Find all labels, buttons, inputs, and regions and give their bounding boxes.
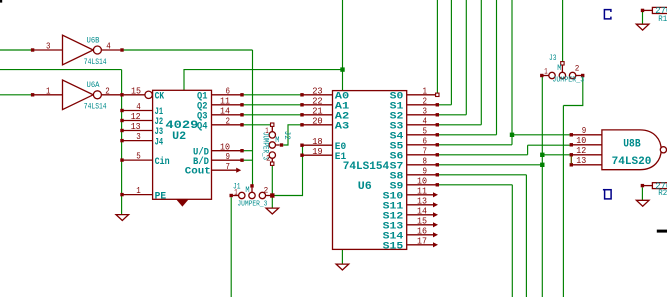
wire U6B output net horizontal [123,49,252,51]
svg-text:3: 3 [46,42,51,52]
wire resistor R? to ground (bottom right) [641,187,643,200]
pin 13 S11 of U6 [383,196,438,212]
svg-text:JUMPER_3: JUMPER_3 [237,200,267,208]
svg-text:20: 20 [312,116,323,126]
svg-text:S15: S15 [383,241,404,253]
svg-text:M: M [557,64,561,73]
pin 13 of U8B [570,156,602,167]
pin 9 B/D of U2 [193,152,244,168]
pin 20 A3 of U6 [300,116,349,132]
svg-text:10: 10 [576,136,586,146]
svg-text:JUMPER_3: JUMPER_3 [552,77,584,85]
resistor R2 270 (bottom right) [641,181,667,197]
svg-text:6: 6 [423,136,428,146]
svg-text:3: 3 [423,106,428,116]
jumper J2 JUMPER_3 [260,123,291,165]
wire A3 jog to jumper J2 pin M [283,125,302,145]
svg-text:U6: U6 [358,181,372,193]
nand gate U8B 74LS20 body [602,130,667,170]
wire S7 row to junction on vertical x=542 [439,164,541,166]
wire B/D pin to vertical x=252 [243,159,253,161]
wire junction node to ground stub [271,196,273,209]
svg-text:13: 13 [131,122,141,132]
svg-text:U6A: U6A [87,81,100,90]
pin 1 PE of U2 [120,186,166,202]
svg-text:2: 2 [226,116,231,126]
svg-text:4: 4 [423,116,428,126]
svg-text:22: 22 [312,96,323,106]
svg-text:19: 19 [312,147,323,157]
wire S1 jog and riser [439,0,452,105]
wire Q4 to jumper J2 pin 1 [243,124,271,126]
svg-text:1: 1 [234,188,238,197]
wire S3 jog and riser [439,0,482,125]
svg-text:7: 7 [226,162,231,172]
svg-text:2: 2 [423,96,428,106]
pin 1 S0 of U6 [390,86,439,102]
svg-text:4: 4 [106,42,111,52]
decoder U6 74LS154 body [333,91,407,250]
svg-text:23: 23 [312,86,323,96]
svg-text:8: 8 [423,156,428,166]
svg-text:11: 11 [417,186,427,196]
pin 7 S6 of U6 [390,146,439,162]
pin 11 Q2 of U2 [197,96,244,112]
node D [603,190,611,199]
wire S2 jog and riser [439,0,467,115]
svg-text:14: 14 [417,206,427,216]
pin 4 S3 of U6 [390,116,439,132]
wire S8 row down at x=526 to bottom edge [439,175,527,297]
svg-text:15: 15 [417,216,427,226]
pin 15 CK of U2 with bubble [124,87,165,103]
pin 14 S12 of U6 [383,206,438,222]
junction (542,155) [540,153,544,157]
svg-text:R1: R1 [658,15,667,24]
pin 23 A0 of U6 [300,86,349,102]
pin 22 A1 of U6 [300,96,349,112]
resistor R1 270 (top right) [641,6,667,24]
svg-text:9: 9 [226,152,231,162]
ground below resistor R1 [636,24,649,30]
svg-text:Cout: Cout [185,166,211,178]
svg-text:J2: J2 [282,131,291,140]
wire E0/E1 tie down to junction node [274,145,303,195]
svg-text:Cin: Cin [155,156,170,168]
svg-text:2: 2 [264,187,269,196]
pin 3 J4 of U2 [120,132,163,148]
svg-text:9: 9 [423,166,428,176]
wire tie between pins 12 and 13 of U8B [570,156,572,164]
svg-text:14: 14 [220,106,230,116]
svg-text:U2: U2 [172,131,186,143]
svg-text:CK: CK [155,90,165,102]
wire Q3 to A2 [243,114,302,116]
pin 7 Cout of U2 [185,162,241,178]
svg-text:5: 5 [136,152,141,162]
svg-text:74LS20: 74LS20 [612,156,652,168]
svg-text:2: 2 [575,64,580,73]
pin 10 U/D of U2 [193,142,244,158]
svg-text:13: 13 [576,156,586,166]
svg-text:2: 2 [105,86,110,96]
svg-text:R2: R2 [658,189,667,198]
svg-text:10: 10 [417,176,427,186]
pin 21 A2 of U6 [300,106,349,122]
svg-text:21: 21 [312,106,323,116]
svg-text:1: 1 [136,186,141,196]
pin 6 Q1 of U2 [197,86,244,102]
svg-text:1: 1 [265,127,269,136]
svg-text:13: 13 [417,196,427,206]
svg-text:J3: J3 [549,54,557,63]
wire U6B input from left edge [0,49,32,51]
svg-text:74LS14: 74LS14 [84,103,107,112]
svg-text:Q4: Q4 [197,121,208,133]
ground below resistor R2 [636,200,649,206]
svg-text:1: 1 [423,86,428,96]
wire Q2 to A1 [243,104,302,106]
svg-text:M: M [275,136,279,145]
svg-text:J4: J4 [155,136,164,148]
counter U2 4029 body [153,90,212,206]
pin 11 S10 of U6 [383,186,438,202]
wire 4029 top pin to vertical x=342 [184,70,343,91]
inverter U6B 74LS14 [31,35,124,67]
pin 5 Cin of U2 [120,152,169,168]
svg-text:5: 5 [423,126,428,136]
wire feedback net from left edge [0,69,122,71]
wire S5 row joining riser x=512 [439,0,512,145]
pin 6 S5 of U6 [390,136,439,152]
wire jumper J3 pin 1 vertical down to bottom edge [541,77,543,297]
ground below U6 [336,264,349,270]
svg-text:12: 12 [576,146,586,156]
svg-text:9: 9 [582,126,587,136]
svg-text:7: 7 [423,146,428,156]
pin 9 S8 of U6 [390,166,439,182]
svg-text:M: M [245,186,249,195]
svg-text:PE: PE [155,190,167,202]
svg-text:15: 15 [131,87,141,97]
wire S0 riser to top edge [436,0,438,93]
wire vertical x=342 from top edge to U6 top [342,0,344,90]
svg-text:12: 12 [131,112,141,122]
wire resistor R? to ground (top right) [642,12,644,24]
wire vertical x=122 (inverter feedback / 4029 input bus) down to ground [121,70,123,215]
node C [604,10,611,19]
pin 2 S1 of U6 [390,96,439,112]
pin 15 S13 of U6 [383,216,438,232]
pin 2 Q4 of U2 [197,116,244,132]
svg-text:E1: E1 [335,151,346,163]
svg-text:16: 16 [417,226,427,236]
pin 10 of U8B [570,136,602,147]
junction (542,165) [540,163,544,167]
wire Q1 to A0 [243,94,302,96]
ground below U2 input bus [116,215,129,221]
wire J1 pin1 down to bottom edge [230,197,232,297]
svg-text:74LS14: 74LS14 [84,58,107,67]
svg-text:U6B: U6B [87,36,100,45]
junction (512,135) [510,133,514,137]
jumper J3 JUMPER_3 [540,54,585,85]
junction node (272,195.5) [270,193,274,197]
pin 12 of U8B [570,146,602,157]
pin 18 E0 of U6 [300,137,346,153]
junction (342,70) [340,67,344,71]
pin 14 Q3 of U2 [197,106,244,122]
svg-text:10: 10 [220,142,230,152]
wire S6 row jog up to gate pin 10 [439,145,570,155]
wire from junction x=542 to gate pin 12 [542,154,570,156]
inverter U6A 74LS14 [31,80,124,112]
pin 10 S9 of U6 [390,176,439,192]
svg-text:U8B: U8B [623,138,641,150]
svg-text:18: 18 [312,137,323,147]
pin 13 J3 of U2 [120,122,163,138]
wire U6A input from left edge [0,94,32,96]
wire from top edge to jumper J3 pin M [562,0,564,62]
wire U6 bottom pin to ground [341,249,343,264]
svg-text:11: 11 [220,96,230,106]
jumper J1 JUMPER_3 [230,183,271,209]
pin 9 of U8B [570,126,602,137]
wire vertical x=252 down to jumper J1 pin M [252,50,254,185]
pin 16 S14 of U6 [383,226,438,242]
pin 8 S7 of U6 [390,156,439,172]
svg-text:74LS154: 74LS154 [343,161,390,173]
wire U/D pin to vertical x=252 [243,150,253,152]
svg-text:1: 1 [544,67,548,76]
svg-text:17: 17 [417,236,427,246]
ground at jumper junction node [266,208,279,214]
svg-text:2: 2 [266,155,271,164]
pin 19 E1 of U6 [300,147,346,163]
pin 4 J1 of U2 [120,102,163,118]
pin 17 S15 of U6 [383,236,438,252]
svg-text:A3: A3 [335,120,350,132]
svg-text:1: 1 [46,86,51,96]
svg-text:3: 3 [136,132,141,142]
wire jumper J2 pin 2 down to junction node [271,165,273,195]
pin 3 S2 of U6 [390,106,439,122]
pin 5 S4 of U6 [390,126,439,142]
svg-text:6: 6 [226,86,231,96]
pin 12 J2 of U2 [120,112,163,128]
wire jumper J3 pin 2 jog down to bottom edge [563,77,582,297]
wire S4 jog and riser [439,0,497,135]
wire S9 row down at x=512 to bottom edge [439,185,513,297]
wire from junction x=512 to gate pin 9 [512,134,570,136]
svg-text:4: 4 [136,102,141,112]
